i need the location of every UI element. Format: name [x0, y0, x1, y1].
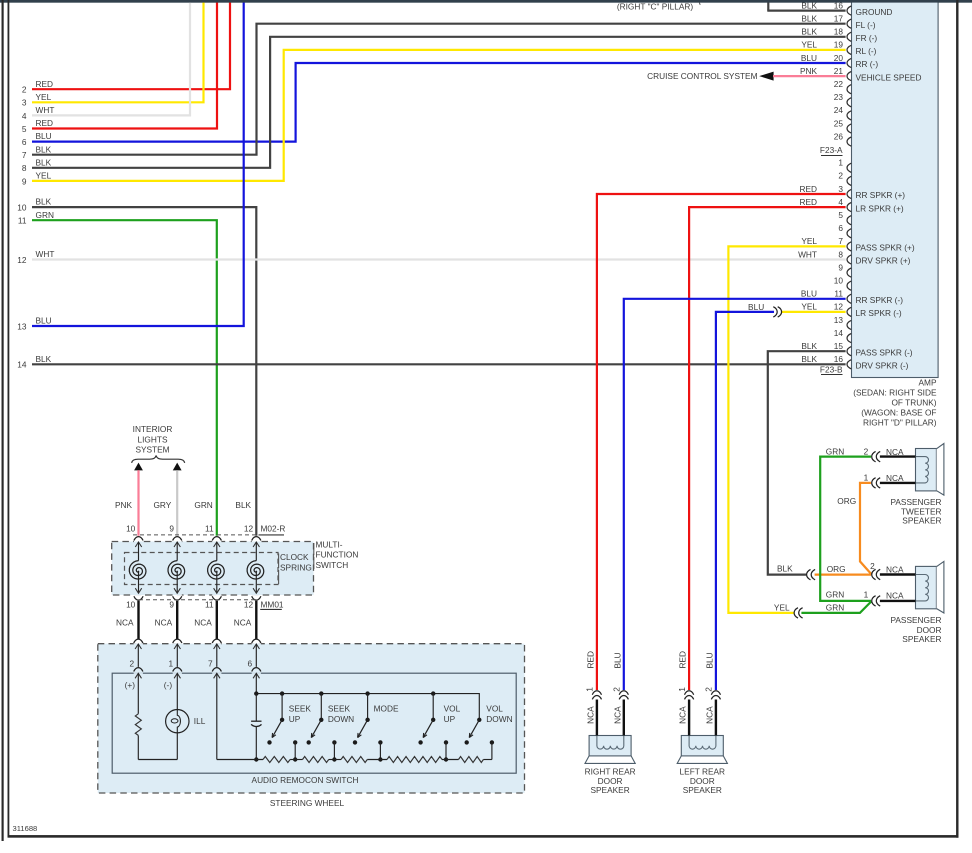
svg-text:YEL: YEL [36, 92, 52, 102]
svg-text:RED: RED [36, 118, 54, 128]
svg-text:ILL: ILL [194, 716, 206, 726]
svg-text:SPRING: SPRING [280, 562, 312, 572]
svg-text:SPEAKER: SPEAKER [902, 516, 941, 526]
resistor chain taps [293, 740, 297, 744]
svg-text:12: 12 [244, 523, 254, 533]
wire PNK pin 21 vehicle speed [773, 75, 846, 77]
svg-text:BLK: BLK [801, 27, 817, 37]
svg-text:RR (-): RR (-) [856, 59, 879, 69]
svg-text:11: 11 [18, 216, 27, 226]
door pin 2 connector [872, 569, 876, 579]
svg-text:GRN: GRN [826, 590, 844, 600]
svg-text:GRN: GRN [826, 446, 844, 456]
svg-text:SPEAKER: SPEAKER [902, 634, 941, 644]
wire GRY to clock spring pin 9 [176, 470, 178, 536]
svg-text:5: 5 [838, 210, 843, 220]
svg-text:17: 17 [834, 14, 844, 24]
svg-text:12: 12 [17, 255, 27, 265]
switch SEEK DOWN [320, 694, 322, 720]
svg-text:10: 10 [126, 523, 136, 533]
svg-text:MODE: MODE [374, 703, 399, 713]
svg-text:DRV SPKR (-): DRV SPKR (-) [856, 361, 909, 371]
svg-text:ORG: ORG [827, 564, 846, 574]
svg-text:WHT: WHT [798, 249, 817, 259]
svg-text:CLOCK: CLOCK [280, 552, 309, 562]
svg-text:FR (-): FR (-) [856, 33, 878, 43]
multi-function switch box [112, 542, 314, 596]
arrow to interior lights (GRY) [173, 463, 182, 471]
svg-text:LR SPKR (-): LR SPKR (-) [856, 308, 902, 318]
switch VOL DOWN [477, 718, 481, 722]
svg-text:NCA: NCA [886, 447, 904, 457]
svg-text:AUDIO REMOCON SWITCH: AUDIO REMOCON SWITCH [252, 775, 359, 785]
door pin 1 connector [872, 596, 876, 606]
svg-text:VOL: VOL [444, 703, 461, 713]
speaker: right rear|door|speaker [589, 736, 631, 756]
svg-text:RED: RED [678, 651, 688, 669]
left rear|door|speaker pin 2 connector [711, 691, 720, 695]
svg-text:18: 18 [834, 27, 844, 37]
svg-text:SPEAKER: SPEAKER [683, 785, 722, 795]
svg-text:10: 10 [126, 600, 136, 610]
svg-text:BLU: BLU [801, 289, 817, 299]
lamp ILL [176, 676, 178, 710]
svg-text:DRV SPKR (+): DRV SPKR (+) [856, 256, 911, 266]
svg-text:NCA: NCA [234, 617, 252, 627]
audio remocon switch box [112, 673, 516, 773]
svg-text:PNK: PNK [800, 66, 818, 76]
svg-text:311688: 311688 [13, 824, 38, 833]
wire BLU pin 11 to right rear speaker [624, 299, 846, 690]
svg-text:BLK: BLK [235, 500, 251, 510]
svg-text:9: 9 [169, 523, 174, 533]
inline connector BLK/ORG [807, 569, 811, 579]
steering wheel connector pin 6 [252, 642, 261, 643]
svg-text:NCA: NCA [155, 617, 173, 627]
svg-text:13: 13 [834, 315, 844, 325]
clock spring coil 2 [173, 540, 182, 541]
switch SEEK UP [281, 694, 283, 720]
svg-text:2: 2 [22, 85, 27, 95]
svg-text:11: 11 [834, 289, 843, 299]
svg-text:DOWN: DOWN [486, 714, 512, 724]
svg-text:7: 7 [208, 659, 213, 669]
svg-text:SEEK: SEEK [289, 703, 312, 713]
svg-text:NCA: NCA [194, 617, 212, 627]
svg-text:9: 9 [22, 176, 27, 186]
wire RED pin 3 to right rear speaker [597, 194, 846, 690]
svg-text:FUNCTION: FUNCTION [316, 550, 359, 560]
svg-text:SEEK: SEEK [328, 703, 351, 713]
svg-text:BLU: BLU [705, 652, 715, 668]
svg-text:22: 22 [834, 79, 844, 89]
wire pin 6 to switch bus [255, 676, 257, 694]
resistor illumination (+) branch [137, 676, 139, 714]
switch common bus [256, 694, 479, 720]
svg-text:1: 1 [677, 687, 687, 692]
svg-text:WHT: WHT [36, 249, 55, 259]
svg-text:(-): (-) [164, 680, 173, 690]
svg-text:LIGHTS: LIGHTS [138, 434, 168, 444]
connector MM01 [139, 599, 256, 601]
cruise control system arrow [759, 72, 773, 81]
wire pin 7 to resistor chain [216, 676, 218, 760]
svg-text:PNK: PNK [115, 500, 133, 510]
svg-text:NCA: NCA [585, 706, 595, 724]
svg-text:YEL: YEL [774, 602, 790, 612]
svg-text:16: 16 [834, 354, 844, 364]
svg-text:4: 4 [22, 111, 27, 121]
svg-text:14: 14 [834, 328, 844, 338]
svg-text:NCA: NCA [886, 591, 904, 601]
svg-text:BLU: BLU [612, 652, 622, 668]
svg-text:RR SPKR (-): RR SPKR (-) [856, 295, 904, 305]
svg-text:GROUND: GROUND [856, 7, 893, 17]
svg-text:10: 10 [17, 203, 27, 213]
svg-text:PASS SPKR (-): PASS SPKR (-) [856, 347, 913, 357]
svg-text:YEL: YEL [801, 236, 817, 246]
svg-text:NCA: NCA [612, 706, 622, 724]
svg-text:BLK: BLK [801, 341, 817, 351]
inline connector YEL/GRN [794, 608, 798, 618]
steering wheel boundary [98, 644, 525, 793]
svg-text:AMP: AMP [919, 377, 937, 387]
svg-text:WHT: WHT [36, 105, 55, 115]
svg-text:2: 2 [838, 171, 843, 181]
svg-text:7: 7 [22, 150, 27, 160]
clock spring coil 4 [252, 540, 261, 541]
svg-text:2: 2 [129, 659, 134, 669]
svg-text:23: 23 [834, 92, 844, 102]
svg-text:SPEAKER: SPEAKER [590, 785, 629, 795]
wire ORG to passenger door speaker pin 2 [815, 573, 871, 575]
svg-text:2: 2 [612, 687, 622, 692]
svg-text:15: 15 [834, 341, 844, 351]
svg-text:9: 9 [838, 262, 843, 272]
svg-text:GRN: GRN [826, 602, 844, 612]
svg-text:8: 8 [22, 163, 27, 173]
svg-text:12: 12 [244, 600, 254, 610]
svg-text:(+): (+) [125, 680, 136, 690]
svg-text:1: 1 [838, 158, 843, 168]
switch MODE [367, 694, 369, 720]
svg-text:YEL: YEL [36, 171, 52, 181]
svg-text:6: 6 [838, 223, 843, 233]
svg-text:SWITCH: SWITCH [316, 560, 349, 570]
tweeter pin 2 connector [872, 451, 876, 461]
wire ORG from tweeter pin 1 to door pin 2 [860, 483, 871, 574]
svg-text:RED: RED [36, 79, 54, 89]
svg-text:1: 1 [585, 687, 595, 692]
svg-text:5: 5 [22, 124, 27, 134]
svg-text:RED: RED [799, 184, 817, 194]
speaker: left rear|door|speaker [681, 736, 723, 756]
brace [132, 456, 185, 463]
svg-text:BLK: BLK [36, 144, 52, 154]
speaker: passenger tweeter [916, 449, 937, 491]
svg-text:GRN: GRN [194, 500, 212, 510]
connector F23 AMP box [852, 0, 939, 378]
ground wire BLK pin 16 to right C pillar [767, 2, 769, 11]
svg-text:10: 10 [834, 276, 844, 286]
wire (+) to (-) bottom [138, 759, 177, 761]
steering wheel connector pin 1 [173, 642, 182, 643]
svg-text:NCA: NCA [886, 473, 904, 483]
svg-text:YEL: YEL [801, 302, 817, 312]
svg-text:F23-B: F23-B [820, 365, 843, 375]
svg-text:20: 20 [834, 53, 844, 63]
clock spring box [125, 553, 279, 585]
svg-text:BLK: BLK [36, 197, 52, 207]
svg-text:NCA: NCA [678, 706, 688, 724]
left rear|door|speaker pin 1 connector [685, 691, 694, 695]
svg-text:VOL: VOL [486, 703, 503, 713]
svg-text:1: 1 [864, 473, 869, 483]
svg-text:GRN: GRN [36, 210, 54, 220]
svg-text:11: 11 [205, 523, 214, 533]
svg-text:6: 6 [22, 137, 27, 147]
svg-text:SYSTEM: SYSTEM [135, 445, 169, 455]
svg-text:8: 8 [838, 249, 843, 259]
capacitor [255, 694, 257, 721]
svg-text:MULTI-: MULTI- [316, 540, 343, 550]
svg-text:CRUISE CONTROL SYSTEM: CRUISE CONTROL SYSTEM [647, 71, 757, 81]
svg-text:GRY: GRY [153, 500, 171, 510]
right rear|door|speaker pin 2 connector [619, 691, 628, 695]
svg-text:24: 24 [834, 105, 844, 115]
svg-text:INTERIOR: INTERIOR [133, 424, 173, 434]
connector F23-A pin brackets and numbers [847, 6, 851, 15]
svg-text:BLU: BLU [801, 53, 817, 63]
svg-text:13: 13 [17, 321, 27, 331]
steering wheel connector pin 2 [134, 642, 143, 643]
svg-text:MM01: MM01 [261, 600, 284, 610]
svg-text:RR SPKR (+): RR SPKR (+) [856, 190, 906, 200]
svg-text:9: 9 [169, 600, 174, 610]
svg-text:OF TRUNK): OF TRUNK) [891, 397, 936, 407]
inline connector BLU/YEL [773, 307, 777, 317]
svg-text:12: 12 [834, 302, 844, 312]
wire GRN tweeter pin 2 to door pin 1 [820, 457, 871, 601]
svg-text:YEL: YEL [801, 40, 817, 50]
svg-text:BLK: BLK [36, 354, 52, 364]
svg-text:F23-A: F23-A [820, 145, 843, 155]
svg-text:UP: UP [444, 714, 456, 724]
svg-text:BLK: BLK [801, 354, 817, 364]
svg-text:PASSENGER: PASSENGER [890, 497, 941, 507]
svg-text:3: 3 [838, 184, 843, 194]
svg-text:RIGHT "D" PILLAR): RIGHT "D" PILLAR) [863, 418, 937, 428]
wire RED pin 4 to left rear speaker [689, 207, 846, 690]
svg-text:PASS SPKR (+): PASS SPKR (+) [856, 243, 915, 253]
resistor chain rail and resistors [217, 759, 263, 761]
svg-text:2: 2 [870, 561, 875, 571]
svg-text:STEERING WHEEL: STEERING WHEEL [270, 798, 345, 808]
svg-text:BLK: BLK [36, 157, 52, 167]
svg-text:BLU: BLU [36, 131, 52, 141]
svg-text:19: 19 [834, 40, 844, 50]
wire BLU to left rear speaker [716, 312, 774, 690]
svg-text:ORG: ORG [837, 496, 856, 506]
steering wheel connector pin 7 [212, 642, 221, 643]
svg-text:BLU: BLU [748, 302, 764, 312]
svg-text:1: 1 [864, 590, 869, 600]
svg-text:4: 4 [838, 197, 843, 207]
svg-text:LR SPKR (+): LR SPKR (+) [856, 203, 904, 213]
svg-text:RL (-): RL (-) [856, 46, 877, 56]
svg-text:25: 25 [834, 118, 844, 128]
tweeter pin 1 connector [872, 478, 876, 488]
svg-text:FL (-): FL (-) [856, 20, 876, 30]
svg-text:BLU: BLU [36, 316, 52, 326]
clock spring coil 1 [134, 540, 143, 541]
svg-text:14: 14 [17, 360, 27, 370]
svg-text:BLK: BLK [801, 14, 817, 24]
svg-text:6: 6 [247, 659, 252, 669]
svg-text:BLK: BLK [777, 564, 793, 574]
svg-text:7: 7 [838, 236, 843, 246]
wire BLK pin 15 PASS SPKR(-) [768, 351, 846, 574]
svg-text:DOWN: DOWN [328, 714, 354, 724]
wire YEL pin 12 LR SPKR(-) [782, 311, 846, 313]
right rear|door|speaker pin 1 connector [592, 691, 601, 695]
wire GRN from connector to door pin 1 [801, 602, 871, 613]
svg-text:UP: UP [289, 714, 301, 724]
svg-text:M02-R: M02-R [261, 523, 286, 533]
wire YEL pin 7 pass spkr(+) [728, 246, 845, 613]
connector F23-B pin brackets and numbers [847, 163, 851, 172]
clock spring coil 3 [212, 540, 221, 541]
arrow to interior lights (PNK) [134, 463, 143, 471]
svg-text:PASSENGER: PASSENGER [890, 615, 941, 625]
switch VOL UP [432, 694, 434, 720]
svg-text:NCA: NCA [886, 564, 904, 574]
svg-text:VEHICLE SPEED: VEHICLE SPEED [856, 72, 922, 82]
svg-text:2: 2 [864, 446, 869, 456]
svg-text:NCA: NCA [116, 617, 134, 627]
svg-text:RED: RED [585, 651, 595, 669]
svg-text:3: 3 [22, 98, 27, 108]
svg-text:26: 26 [834, 131, 844, 141]
svg-text:(SEDAN: RIGHT SIDE: (SEDAN: RIGHT SIDE [853, 387, 937, 397]
svg-text:11: 11 [205, 600, 214, 610]
svg-text:1: 1 [168, 659, 173, 669]
wire PNK to clock spring pin 10 [137, 470, 139, 536]
svg-text:2: 2 [704, 687, 714, 692]
svg-text:21: 21 [834, 66, 844, 76]
svg-text:(WAGON: BASE OF: (WAGON: BASE OF [861, 407, 936, 417]
svg-text:NCA: NCA [704, 706, 714, 724]
svg-text:RED: RED [799, 197, 817, 207]
speaker: passenger door [916, 566, 937, 608]
svg-text:(RIGHT "C" PILLAR): (RIGHT "C" PILLAR) [617, 1, 694, 11]
